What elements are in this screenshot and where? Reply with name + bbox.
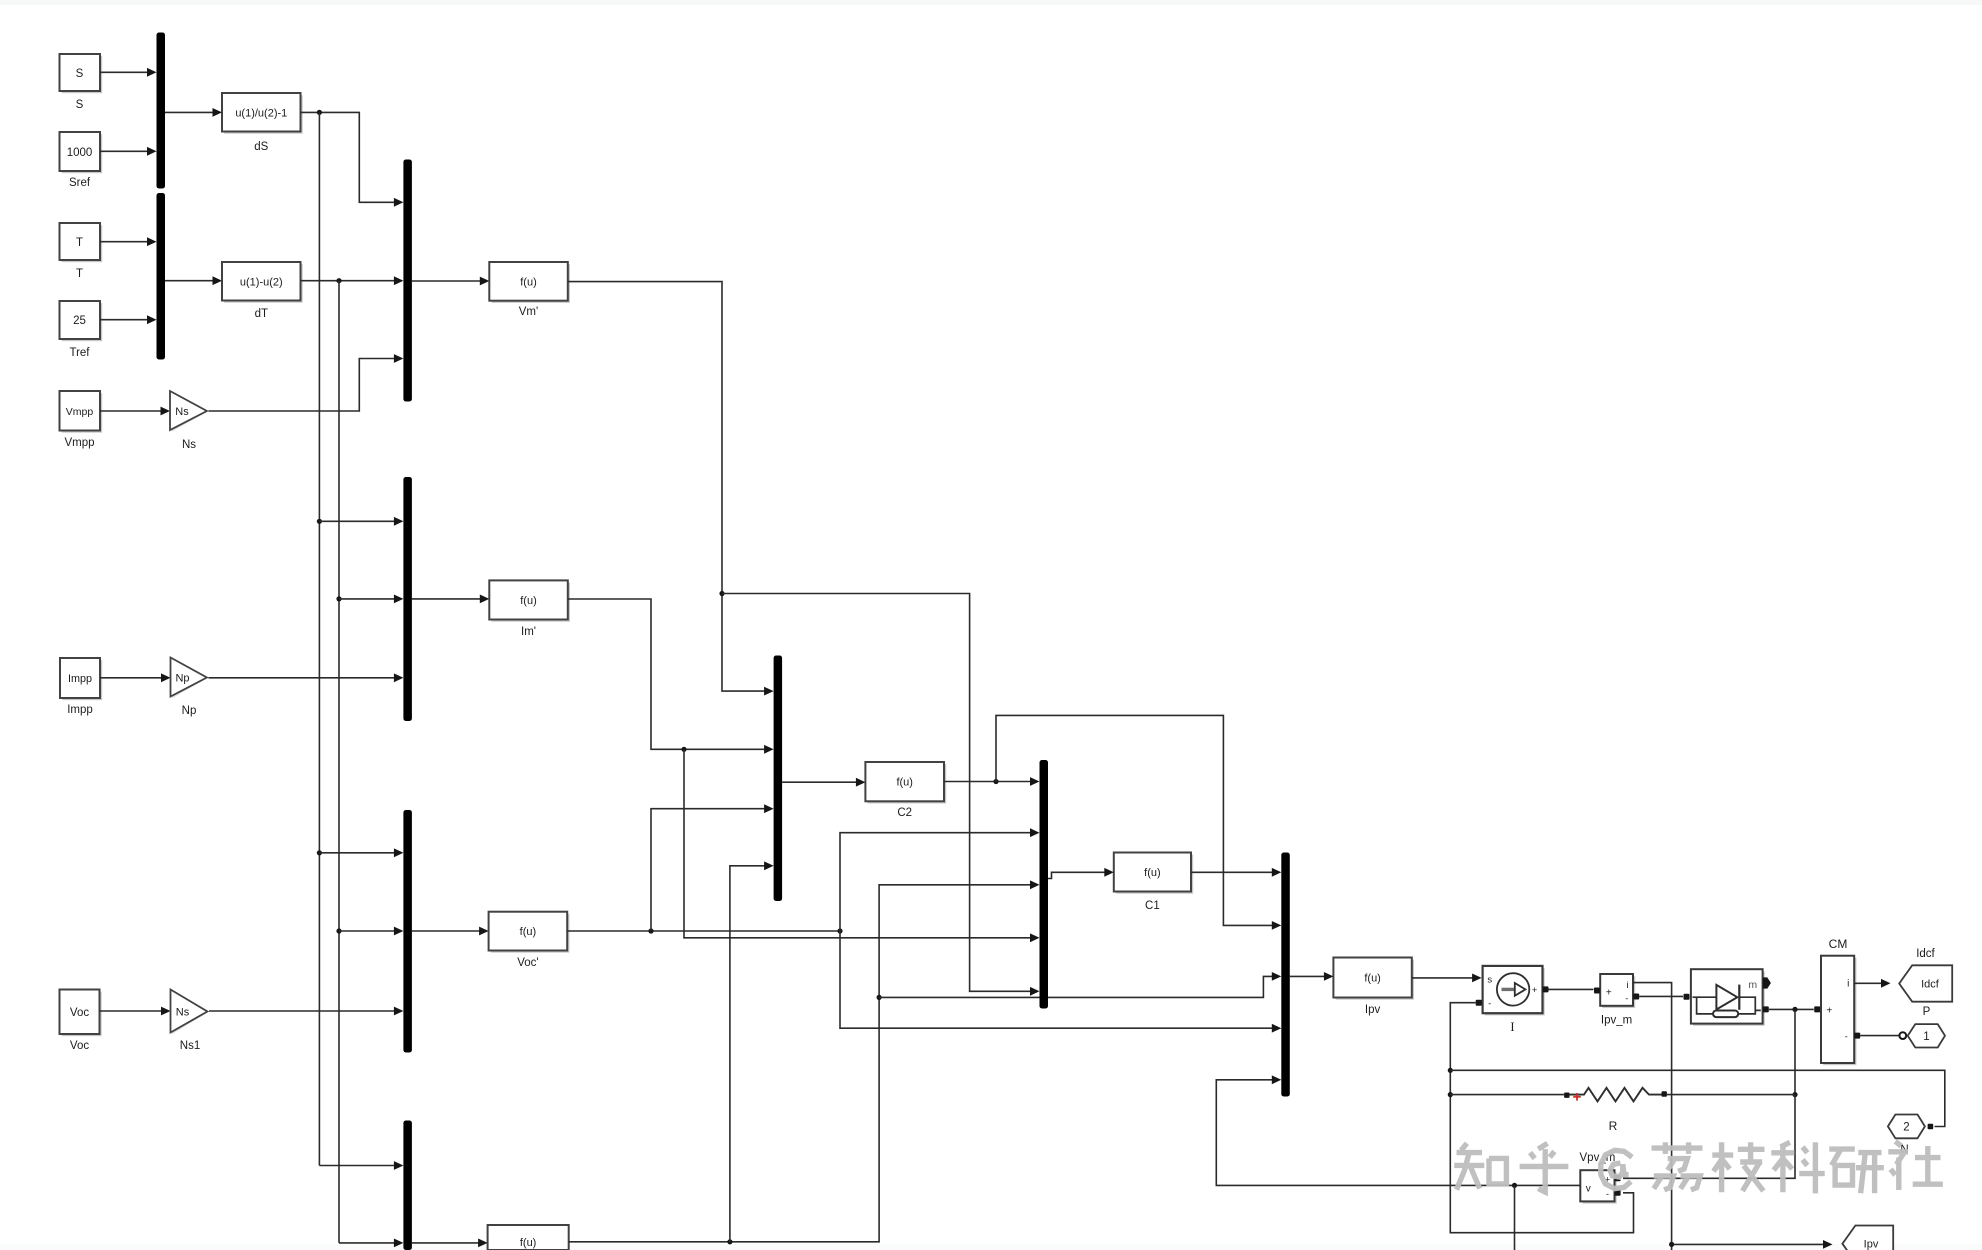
junction I minus node B [1448,1092,1453,1097]
wire dS branch to mux M5 input 1 [319,852,395,854]
wire mux M6 to F4 [412,1242,479,1244]
junction Vm' net [719,591,724,596]
svg-text:Ns1: Ns1 [180,1040,200,1052]
svg-text:f(u): f(u) [520,926,537,938]
svg-text:2: 2 [1903,1122,1909,1134]
wire dT output to mux M3 input 2 [301,280,396,282]
junction dS net to mux M4 [317,519,322,524]
junction C2 net [993,779,998,784]
wire R row [1450,1094,1564,1096]
wire Voc to gain Ns1 [100,1010,163,1012]
wire C2 output to mux M8 input 1 [944,781,1031,783]
svg-text:-: - [1625,994,1628,1004]
wire dT branch to mux M4 input 2 [339,598,395,600]
svg-text:Voc: Voc [70,1040,89,1052]
sum block Ipv_m [1602,976,1635,1008]
wire Im' output net [568,599,765,749]
source block S [62,56,102,93]
wire diode CM node down to R [1794,1009,1796,1094]
wire Sref to mux M1 [100,150,148,152]
wire dT branch to mux M5 input 2 [339,930,395,932]
svg-text:+: + [1532,985,1538,996]
svg-text:P: P [1923,1006,1931,1018]
svg-text:CM: CM [1829,937,1848,951]
svg-text:f(u): f(u) [520,277,537,289]
wire Voc' branch to mux M9 input 4 [840,931,1273,1028]
svg-text:Idcf: Idcf [1916,948,1935,960]
wire N net to port 2 [1450,1070,1945,1126]
svg-text:Im': Im' [521,626,536,638]
svg-text:S: S [76,99,84,111]
wire Vm' output net [568,282,765,691]
wire mux M9 to Ipv block [1290,975,1325,977]
wire gain Ns1 to mux M5 input 3 [209,1010,395,1012]
svg-text:Ipv: Ipv [1864,1239,1879,1250]
junction I minus node A [1448,1068,1453,1073]
wire F4 branch to mux M7 input 4 [730,866,765,1242]
wire mux M1 to dS [165,111,214,113]
svg-text:Ns: Ns [176,1007,190,1019]
from tag Ipv [1842,1226,1893,1250]
wire CM minus to port P [1860,1035,1899,1037]
svg-text:f(u): f(u) [520,595,537,607]
fcn block Ipv f(u) [1336,960,1414,1000]
port Vpv_m minus [1615,1190,1621,1196]
svg-text:Vmpp: Vmpp [64,437,94,449]
port CM input [1814,1006,1820,1012]
svg-text:1: 1 [1923,1031,1929,1043]
constant block Tref 25 [62,303,102,341]
svg-text:I: I [1510,1020,1514,1034]
wire dS vertical bus [318,112,320,1165]
svg-text:Np: Np [182,705,197,717]
svg-text:i: i [1627,980,1629,991]
source block Voc [62,992,102,1036]
output port 2 N [1888,1115,1925,1139]
svg-text:C1: C1 [1145,900,1160,912]
svg-text:f(u): f(u) [1364,973,1381,985]
svg-text:s: s [1487,975,1492,986]
wire Ipv block to source I [1412,977,1473,979]
wire mux M8 to C1 [1048,872,1105,878]
measurement block CM [1823,958,1856,1065]
wire dS output to mux M3 input 1 [301,112,396,202]
wire S to mux M1 [100,71,148,73]
wire dS branch to mux M4 input 1 [319,520,395,522]
wire Vm' branch to mux M8 input 5 [722,594,1031,992]
svg-text:T: T [76,237,83,249]
port I output [1543,986,1549,992]
wire Ipv_m to diode block [1639,995,1683,997]
fcn block C1 f(u) [1116,855,1193,894]
svg-text:Voc': Voc' [517,957,538,969]
fcn block F4 f(u) bottom [488,1225,569,1250]
svg-text:u(1)-u(2): u(1)-u(2) [240,277,283,289]
gain Ns1 [172,991,209,1034]
wire Voc' output net [567,930,840,932]
wire mux M7 to C2 [782,781,857,783]
port diode output [1763,1006,1769,1012]
fcn block dT u(1)-u(2) [224,264,303,303]
constant block Sref 1000 [62,134,102,173]
port Ipv_m minus output [1633,994,1639,1000]
junction Voc' net B [837,928,842,933]
svg-text:+: + [1826,1005,1832,1016]
svg-text:Voc: Voc [70,1007,89,1019]
svg-text:C2: C2 [897,807,912,819]
gain Ns [172,393,209,432]
wire dS branch to mux M6 input 1 [319,1165,395,1167]
svg-text:25: 25 [73,315,86,327]
current source I [1485,968,1545,1015]
svg-text:-: - [1488,999,1491,1010]
svg-text:Np: Np [175,673,189,685]
wire mux M2 to dT [165,280,214,282]
junction Im' net [681,747,686,752]
junction F4 net A [727,1239,732,1244]
svg-text:-: - [1606,1189,1609,1199]
wire F4 output net [569,885,1031,1242]
fcn block Vocp f(u) [491,914,570,953]
svg-text:Tref: Tref [69,347,90,359]
fcn block Imp f(u) [492,583,571,622]
svg-text:m: m [1748,979,1757,991]
wire mux M5 to Vocp [412,930,480,932]
wire Voc' branch to mux M7 input 3 [651,809,765,931]
junction dS net [317,110,322,115]
wire Impp to gain Np [100,677,162,679]
wire mux M3 to Vmp [412,280,481,282]
fcn block C2 f(u) [868,764,947,803]
svg-text:T: T [76,268,83,280]
mux M3 (dS,dT,Ns) [403,160,412,402]
goto tag Idcf [1899,965,1952,1001]
mux M2 (T,Tref) [157,193,166,360]
svg-text:f(u): f(u) [520,1237,537,1249]
svg-text:+: + [1606,988,1612,999]
svg-text:Ipv: Ipv [1365,1004,1381,1016]
output port 1 P [1908,1024,1945,1047]
port 2 connector [1928,1124,1934,1130]
junction dT net to mux M5 [336,928,341,933]
wire diode to CM [1769,1008,1814,1010]
svg-text:f(u): f(u) [896,777,913,789]
port I minus [1476,1000,1482,1006]
voltage sensor Vpv_m [1583,1172,1617,1203]
wire Vmpp to gain Ns [100,410,162,412]
wire mux M4 to Imp [412,598,481,600]
junction dS net to mux M5 [317,850,322,855]
wire C1 output to mux M9 input 1 [1191,871,1273,873]
wire CM i to Idcf tag [1854,982,1882,984]
mux M9 (inputs to Ipv) [1281,853,1290,1097]
mux M8 (inputs to C1) [1040,760,1049,1009]
watermark zhihu text [1454,1143,1506,1189]
wire Ipv_m i output to Ipv tag [1633,983,1672,1250]
svg-text:R: R [1609,1119,1618,1133]
svg-text:Sref: Sref [69,177,91,189]
svg-text:Vm': Vm' [519,306,538,318]
svg-text:dS: dS [254,141,268,153]
svg-text:Ipv_m: Ipv_m [1601,1015,1632,1027]
svg-text:u(1)/u(2)-1: u(1)/u(2)-1 [235,108,287,120]
fcn block dS u(1)/u(2)-1 [224,95,303,134]
wire Vpv_m v output to mux M9 input 5 [1216,1080,1580,1186]
wire Voc' branch to mux M8 input 2 [840,833,1031,931]
junction R right node [1792,1092,1797,1097]
gain Np [172,659,208,698]
mux M5 (dS,dT,Ns1) [403,810,412,1053]
port Ipv_m input [1594,988,1600,994]
junction Vpv_m v net [1512,1183,1517,1188]
source block Vmpp [62,393,102,433]
junction diode CM node [1792,1007,1797,1012]
wire T to mux M2 [100,241,148,243]
svg-text:1000: 1000 [67,147,93,159]
svg-text:dT: dT [255,308,268,320]
svg-text:v: v [1586,1184,1591,1195]
port Vpv_m plus [1615,1175,1621,1181]
svg-text:Vmpp: Vmpp [66,406,94,418]
wire Tref to mux M2 [100,319,148,321]
svg-text:Idcf: Idcf [1921,979,1940,991]
wire gain Ns to mux M3 input 3 [209,359,396,412]
svg-text:Impp: Impp [67,704,93,716]
svg-text:-: - [1845,1032,1848,1042]
wire R node down to Vpv_m plus [1623,1095,1795,1179]
svg-text:Ns: Ns [182,439,196,451]
diode block [1693,971,1765,1025]
mux M1 (S,Sref) [157,33,166,189]
mux M7 (inputs to C2) [774,656,783,902]
svg-text:Impp: Impp [68,673,92,685]
port diode input [1684,994,1690,1000]
mux M6 bottom (dS,dT) [403,1121,412,1250]
red plus marker [1573,1096,1581,1098]
junction Voc' net A [648,928,653,933]
wire dT branch to mux M6 input 2 [339,1242,395,1244]
wire Im' branch to mux M8 input 4 [684,749,1031,938]
source block T [62,225,102,262]
fcn block Vmp f(u) [492,264,571,303]
wire source I to Ipv_m [1549,988,1594,990]
junction Ipv signal net [1669,1242,1674,1247]
source block Impp [62,660,102,700]
svg-text:S: S [76,68,84,80]
junction dT net [336,278,341,283]
port diode m output [1763,977,1771,988]
wire I minus net down [1450,1003,1633,1233]
svg-text:f(u): f(u) [1144,867,1161,879]
wire F4 branch to mux M9 input 3 [879,976,1273,997]
junction dT net to mux M4 [336,596,341,601]
svg-text:i: i [1847,979,1849,990]
wire gain Np to mux M4 input 3 [209,677,396,679]
svg-text:Ns: Ns [175,406,189,418]
wire dT vertical bus [338,281,340,1243]
port CM minus [1854,1033,1860,1039]
junction F4 net B [877,995,882,1000]
mux M4 (dS,dT,Np) [403,477,412,721]
wire C2 branch to mux M9 input 2 [996,715,1273,925]
resistor R [1564,1093,1569,1098]
wire Vpv_m v stub down [1514,1185,1516,1250]
